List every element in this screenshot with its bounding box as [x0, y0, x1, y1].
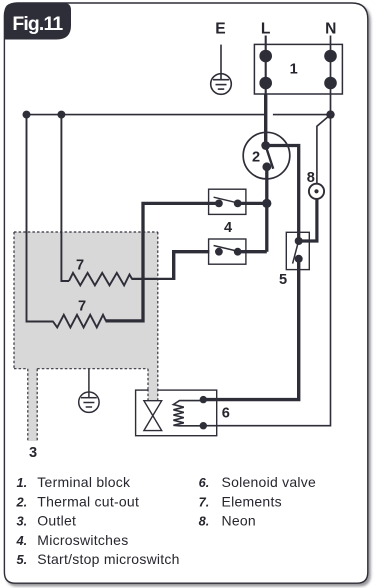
junction node at x=26.5 [23, 111, 31, 119]
junction node at x=61.4 [57, 111, 65, 119]
wire: E stem [220, 45, 222, 80]
solenoid terminals [200, 396, 207, 403]
switch 5 contacts [295, 237, 303, 245]
elements enclosure (gray dashed appliance body) [14, 232, 158, 441]
wire: L terminal down to thermal cut-out [264, 94, 267, 147]
junction node neutral/neon at x=330.5 [326, 110, 334, 118]
svg-text:Terminal block: Terminal block [37, 474, 131, 490]
wire: L terminal drop through block [265, 36, 267, 95]
svg-text:5.: 5. [17, 552, 28, 567]
svg-text:3.: 3. [17, 514, 28, 529]
svg-text:8.: 8. [199, 514, 210, 529]
earth symbol (mains) [211, 74, 232, 95]
terminal block 1 [254, 44, 342, 94]
svg-text:N: N [325, 21, 336, 38]
svg-text:Outlet: Outlet [37, 513, 76, 529]
wire: cut-out to start/stop switch (thick) [266, 146, 299, 242]
svg-text:Fig.11: Fig.11 [12, 13, 63, 35]
earth symbol (appliance) [79, 369, 99, 413]
solenoid coil [173, 401, 203, 426]
wire: N terminal drop [330, 36, 332, 115]
svg-text:7: 7 [76, 258, 84, 274]
valve bowtie upper triangle [144, 401, 162, 416]
wire: neutral down to upper element [61, 115, 69, 281]
svg-text:Neon: Neon [222, 513, 256, 529]
microswitch 4b box [209, 239, 246, 264]
svg-text:2.: 2. [16, 494, 28, 509]
main neutral horizontal wire (with break at L crossover) [27, 114, 331, 116]
svg-text:Elements: Elements [222, 493, 282, 509]
junction node microswitches/cut-out [262, 199, 271, 208]
svg-text:2: 2 [252, 149, 260, 165]
thermal cut-out contacts [261, 141, 270, 150]
microswitch 4b contacts [215, 248, 223, 256]
svg-text:7.: 7. [199, 494, 210, 509]
thermal cut-out 2 circle [243, 132, 290, 179]
svg-text:4.: 4. [16, 533, 28, 548]
svg-text:Solenoid valve: Solenoid valve [222, 474, 317, 490]
svg-text:4: 4 [224, 220, 233, 236]
valve bowtie lower triangle [144, 416, 162, 431]
wire: switch 5 to solenoid valve (thick) [203, 259, 298, 400]
microswitch 4a contacts [215, 200, 223, 208]
wire: upper element to lower microswitch [132, 278, 174, 280]
svg-text:Start/stop microswitch: Start/stop microswitch [37, 551, 179, 567]
svg-text:3: 3 [29, 445, 37, 461]
microswitch 4b blade [214, 246, 236, 251]
svg-text:5: 5 [279, 272, 287, 288]
svg-text:L: L [261, 21, 271, 38]
element R7 upper zigzag [69, 273, 132, 286]
microswitch 4a blade [214, 197, 236, 202]
svg-text:8: 8 [307, 170, 315, 186]
svg-text:6: 6 [222, 405, 230, 421]
svg-text:Thermal cut-out: Thermal cut-out [37, 493, 139, 509]
svg-text:Microswitches: Microswitches [37, 532, 128, 548]
solenoid valve 6 box [136, 390, 217, 436]
wire: neutral down to lower element [27, 115, 54, 322]
element R7 lower zigzag [53, 315, 106, 328]
wire: vertical riser to upper microswitch [143, 203, 219, 322]
wire: neon top to neutral junction [317, 115, 331, 184]
wire: microswitch 4b right stub [238, 250, 267, 253]
svg-text:6.: 6. [199, 475, 210, 490]
microswitch 4a box [209, 189, 246, 214]
gray water channel into valve [148, 389, 158, 401]
svg-text:7: 7 [78, 299, 86, 315]
start/stop microswitch 5 box [286, 232, 309, 269]
wire: thermal cut-out down to microswitches [265, 167, 268, 252]
wire: solenoid return to neutral (thin) [203, 115, 330, 426]
terminal block contacts [259, 50, 272, 63]
switch 5 blade [293, 242, 299, 264]
wire: neon bottom to switch node (thick) [299, 199, 317, 241]
thermal cut-out blade [266, 146, 274, 169]
Fig.11 title box [4, 3, 71, 40]
svg-text:1: 1 [290, 62, 298, 78]
wire: microswitch 4a right stub [238, 202, 267, 205]
neon 8 [309, 184, 324, 199]
svg-text:1.: 1. [17, 475, 28, 490]
wire: lower element to upper microswitch (thick) [106, 319, 144, 322]
svg-text:E: E [215, 21, 225, 38]
